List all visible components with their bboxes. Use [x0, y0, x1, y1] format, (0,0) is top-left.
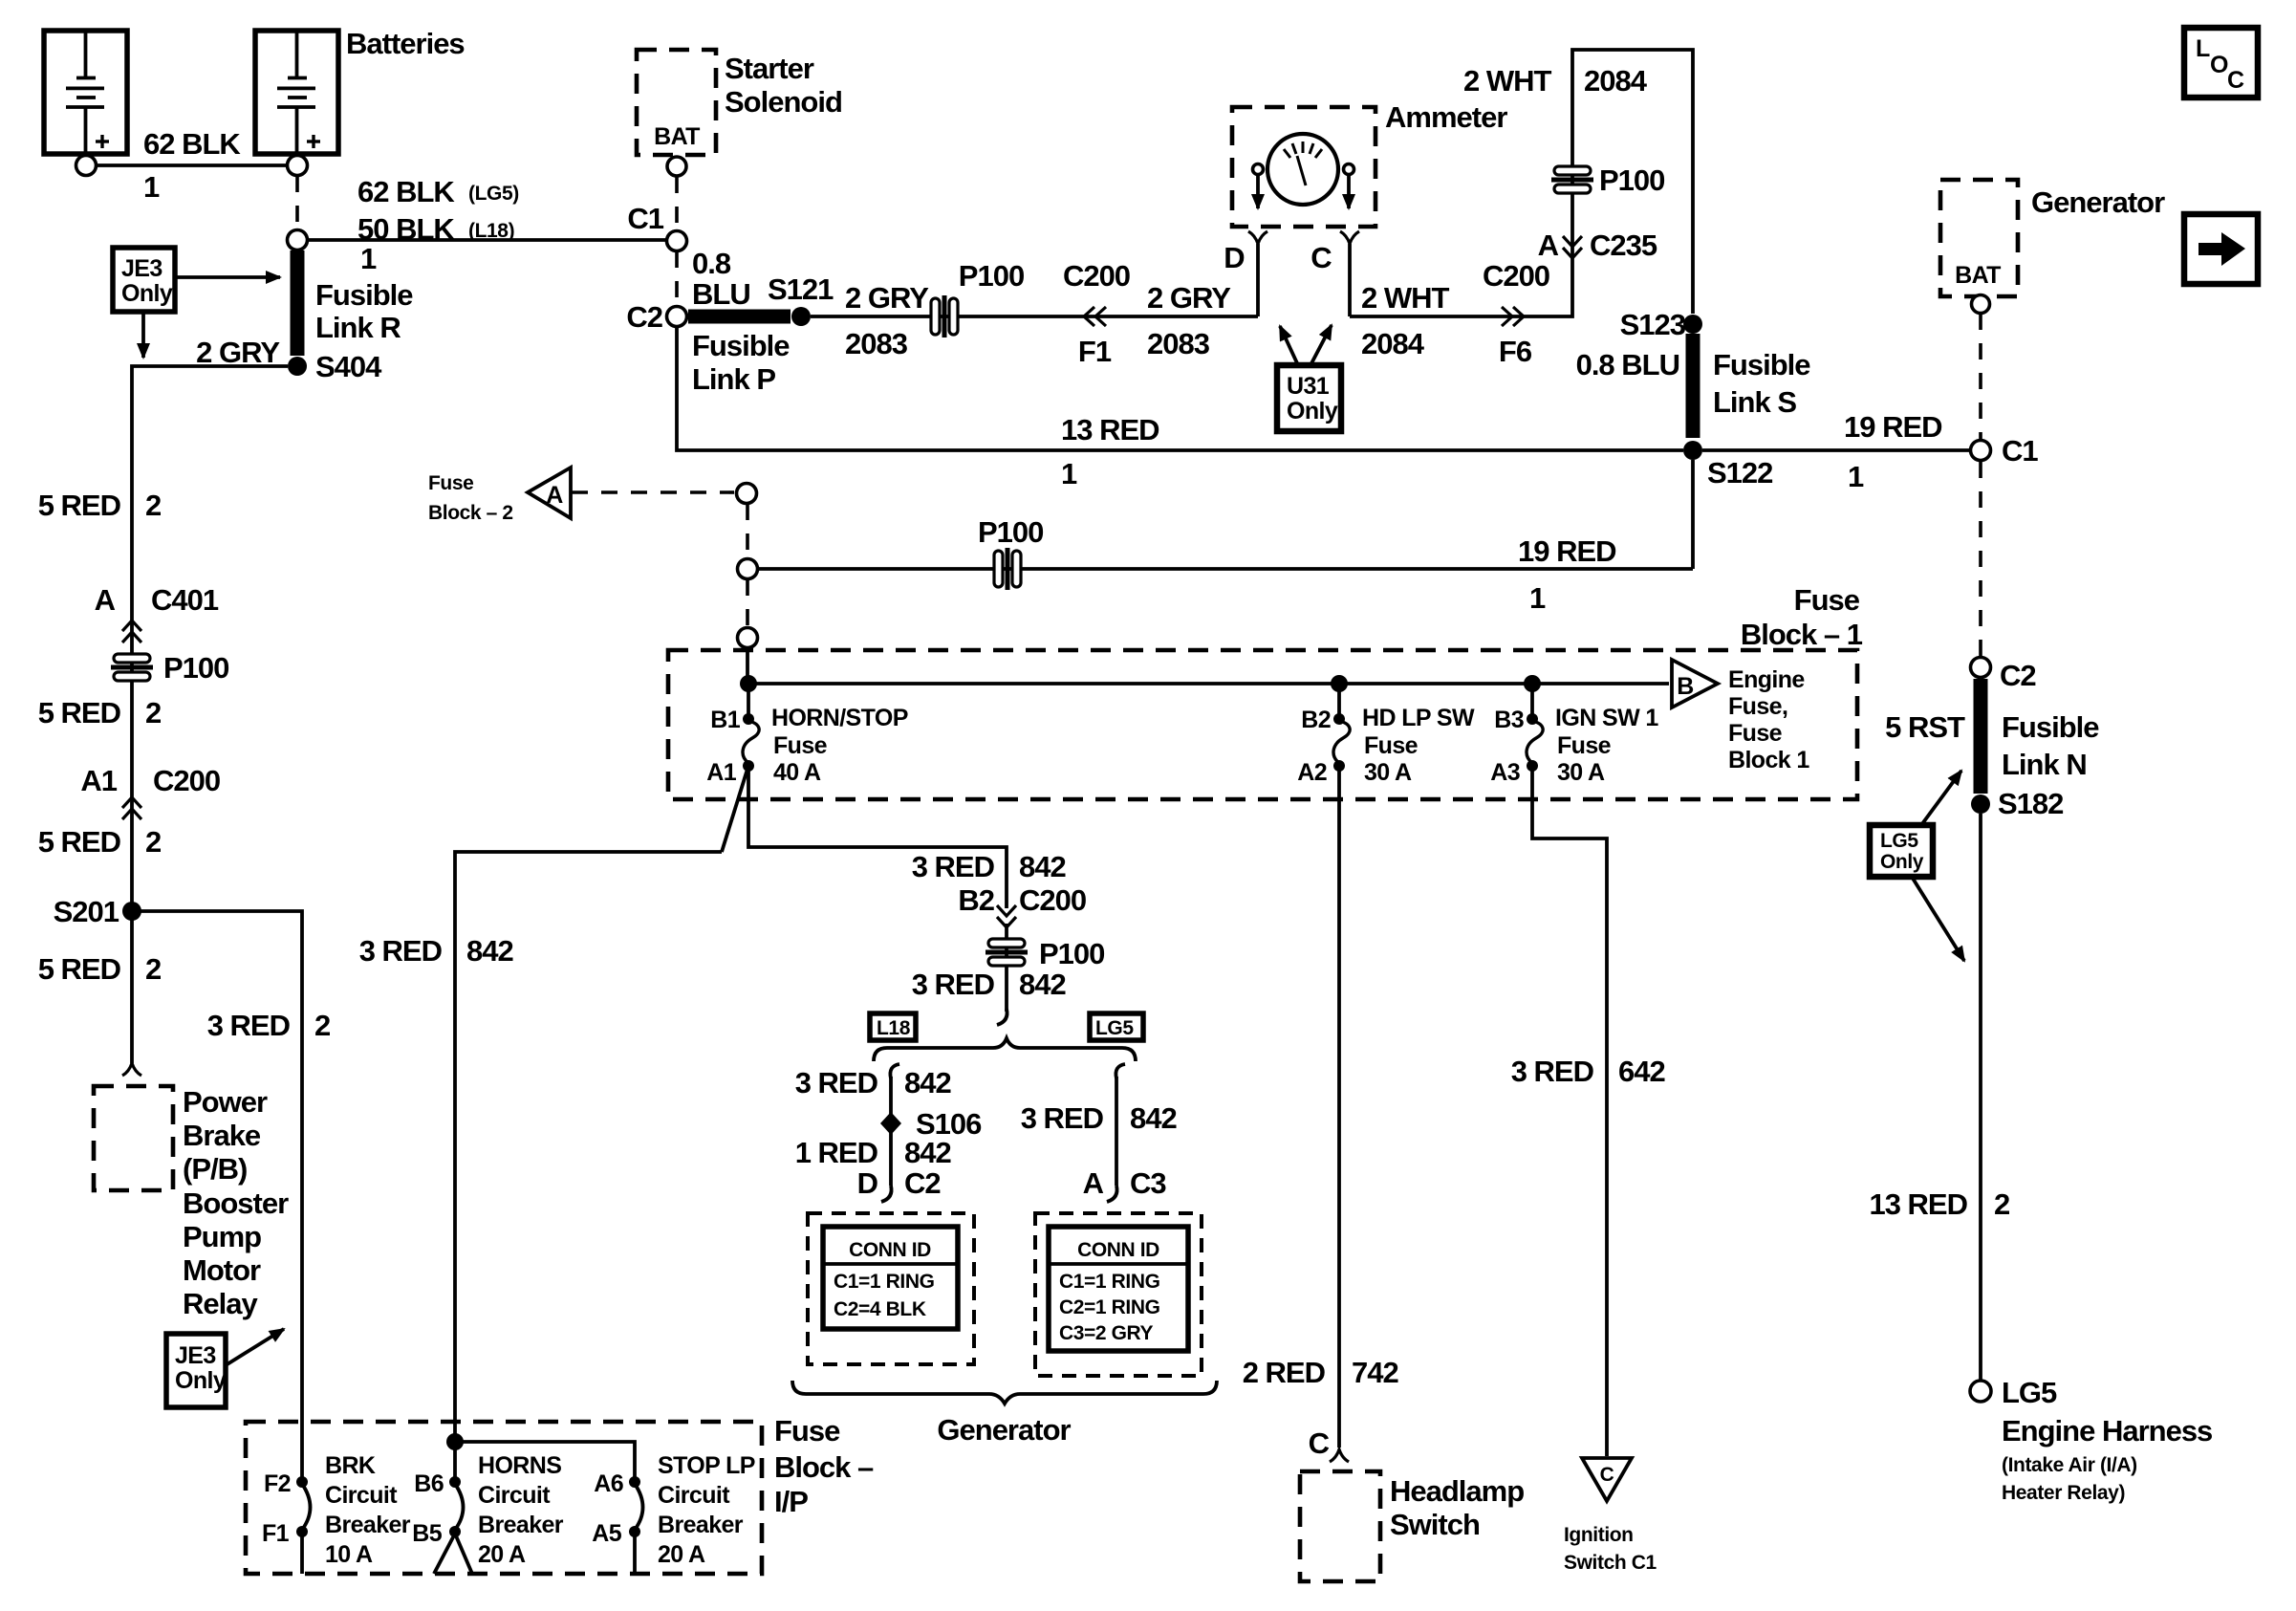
fuse terminal B1: [743, 713, 754, 725]
connector C401 chevrons: [122, 620, 141, 642]
svg-text:C200: C200: [1483, 259, 1549, 293]
svg-text:Only: Only: [1880, 851, 1924, 873]
left branch end hook: [881, 1186, 892, 1202]
svg-text:Fuse: Fuse: [774, 1414, 840, 1448]
dashed wire BAT to C1: [675, 177, 679, 230]
fuse block 2 pointer triangle A: [528, 468, 571, 518]
STOP LP terminal A5: [629, 1526, 640, 1537]
svg-text:Circuit: Circuit: [658, 1482, 730, 1509]
svg-text:5 RED: 5 RED: [38, 952, 121, 986]
svg-text:842: 842: [1130, 1101, 1177, 1135]
svg-text:Starter: Starter: [725, 52, 814, 85]
svg-text:A3: A3: [1490, 759, 1520, 786]
svg-text:C1: C1: [627, 202, 663, 235]
svg-text:C2: C2: [626, 300, 662, 334]
fusible link P: [688, 310, 791, 324]
svg-text:I/P: I/P: [774, 1485, 808, 1518]
svg-text:C200: C200: [1063, 259, 1130, 293]
connector C2: [1971, 658, 1991, 678]
LOC box: [2184, 28, 2258, 98]
wire into fuse block: [746, 648, 749, 684]
svg-text:C2=1 RING: C2=1 RING: [1059, 1296, 1160, 1318]
ammeter terminal C circle: [1344, 164, 1354, 175]
wire A3 down with jog: [1532, 766, 1607, 1456]
HORNS terminal B5: [449, 1526, 461, 1537]
svg-text:Switch: Switch: [1390, 1508, 1480, 1541]
svg-text:BAT: BAT: [654, 123, 700, 150]
connector C1: [667, 231, 687, 251]
svg-text:L: L: [2196, 35, 2210, 62]
svg-text:U31: U31: [1287, 373, 1330, 400]
svg-text:A: A: [95, 583, 116, 617]
grommet P100: [994, 548, 1021, 590]
splice curl: [997, 1009, 1007, 1025]
CONN ID box left dashed: [808, 1213, 974, 1364]
svg-text:C200: C200: [153, 764, 220, 797]
right branch end hook: [1107, 1186, 1117, 1202]
svg-text:3 RED: 3 RED: [795, 1066, 878, 1099]
svg-text:Only: Only: [121, 280, 173, 307]
svg-text:C3: C3: [1130, 1166, 1166, 1200]
bus junction dot: [740, 675, 757, 692]
label Engine Fuse, Fuse Block 1: [1728, 666, 1809, 773]
arrow JE3 2 to wire: [226, 1329, 284, 1365]
svg-text:Fusible: Fusible: [315, 278, 413, 312]
left branch wire: [889, 1077, 893, 1186]
svg-text:Generator: Generator: [937, 1413, 1071, 1447]
svg-text:HORN/STOP: HORN/STOP: [771, 705, 908, 731]
svg-text:Power: Power: [183, 1085, 268, 1119]
svg-text:CONN ID: CONN ID: [1077, 1239, 1159, 1261]
fuse IGN SW 1 squiggle: [1527, 721, 1543, 763]
power brake connector: [122, 1063, 141, 1076]
fuse block I/P dashed box: [246, 1422, 762, 1574]
wire A1 diagonal: [722, 766, 748, 852]
dashed wire down to circle 3: [746, 579, 749, 626]
svg-text:1: 1: [1061, 457, 1077, 490]
L18 box: [870, 1013, 916, 1040]
svg-text:3 RED: 3 RED: [912, 968, 995, 1001]
label STOP LP Circuit Breaker 20 A: [658, 1452, 755, 1568]
BRK breaker terminal F1: [296, 1526, 308, 1537]
svg-text:Circuit: Circuit: [478, 1482, 551, 1509]
label BRK Circuit Breaker 10 A: [325, 1452, 411, 1568]
fusible link S: [1686, 334, 1700, 438]
svg-text:D: D: [1224, 241, 1245, 274]
splice S106: [880, 1112, 901, 1135]
wire 19 RED S122 to C1: [1702, 448, 1970, 452]
connector C1 generator: [1971, 441, 1991, 461]
HORNS squiggle: [455, 1484, 464, 1530]
svg-text:LG5: LG5: [2002, 1376, 2057, 1409]
svg-text:1: 1: [360, 242, 377, 275]
LG5 engine harness terminal: [1970, 1381, 1991, 1402]
svg-text:Brake: Brake: [183, 1119, 261, 1152]
junction dot B2: [1331, 675, 1348, 692]
svg-text:0.8: 0.8: [692, 247, 731, 280]
fuse terminal B3: [1527, 713, 1538, 725]
ammeter pin D wire: [1256, 244, 1260, 316]
svg-text:Headlamp: Headlamp: [1390, 1474, 1524, 1508]
wire 62 BLK between batteries: [96, 163, 287, 167]
node circle 2: [738, 559, 758, 579]
svg-text:1: 1: [1848, 460, 1864, 493]
STOP LP terminal A6: [629, 1476, 640, 1488]
svg-text:B1: B1: [710, 707, 740, 733]
svg-text:HORNS: HORNS: [478, 1452, 561, 1479]
svg-text:L18: L18: [877, 1017, 911, 1039]
right branch curl: [1116, 1064, 1125, 1078]
generator brace: [792, 1381, 1217, 1404]
svg-text:20 A: 20 A: [658, 1541, 705, 1568]
right branch wire: [1115, 1077, 1118, 1186]
grommet P100: [931, 295, 958, 337]
svg-text:Link S: Link S: [1713, 385, 1796, 419]
ignition switch triangle C: [1582, 1458, 1632, 1501]
svg-text:F6: F6: [1499, 335, 1532, 368]
svg-text:(L18): (L18): [468, 220, 514, 242]
svg-text:40 A: 40 A: [773, 759, 821, 786]
connector C200 chevrons: [122, 797, 141, 819]
power brake booster dashed box: [94, 1086, 173, 1190]
svg-text:Block –: Block –: [774, 1450, 874, 1484]
svg-text:Motor: Motor: [183, 1253, 261, 1287]
dashed wire battery B2 down: [295, 176, 299, 229]
fuse terminal A3: [1527, 760, 1538, 772]
svg-text:P100: P100: [978, 515, 1043, 549]
HORNS terminal B6: [449, 1476, 461, 1488]
wire junction to STOP LP: [455, 1442, 635, 1478]
starter BAT terminal: [667, 157, 686, 176]
svg-text:13 RED: 13 RED: [1869, 1187, 1967, 1221]
svg-text:B2: B2: [958, 883, 994, 917]
svg-text:A: A: [546, 482, 563, 509]
fuse terminal B2: [1333, 713, 1345, 725]
svg-text:Only: Only: [175, 1367, 227, 1394]
svg-text:C: C: [1309, 1426, 1330, 1460]
headlamp connector C: [1330, 1449, 1349, 1462]
page arrow box: [2184, 214, 2258, 284]
fuse block 1 dashed box: [668, 650, 1857, 799]
JE3 Only box 2: [166, 1334, 227, 1407]
svg-text:2 RED: 2 RED: [1243, 1356, 1326, 1389]
arrow JE3 to fusible link R: [177, 275, 280, 279]
svg-text:50 BLK: 50 BLK: [357, 212, 455, 246]
splice S123: [1683, 315, 1702, 334]
svg-text:LG5: LG5: [1880, 830, 1918, 852]
svg-text:Engine: Engine: [1728, 666, 1805, 693]
svg-text:842: 842: [466, 934, 513, 968]
label Power Brake (P/B) Booster Pump Motor Relay: [183, 1085, 289, 1320]
svg-text:BRK: BRK: [325, 1452, 376, 1479]
ammeter terminal D circle: [1253, 164, 1264, 175]
svg-text:2 GRY: 2 GRY: [845, 281, 929, 315]
wire S201 branch right and down: [132, 911, 302, 1478]
svg-text:S182: S182: [1998, 787, 2063, 820]
svg-text:A6: A6: [594, 1470, 623, 1497]
wire junction to B6: [453, 1442, 457, 1478]
svg-text:13 RED: 13 RED: [1061, 413, 1159, 446]
wire S404 to left trunk: [132, 366, 288, 1063]
svg-text:2084: 2084: [1361, 327, 1425, 360]
svg-text:Ammeter: Ammeter: [1385, 100, 1507, 134]
BRK breaker terminal F2: [296, 1476, 308, 1488]
svg-text:Breaker: Breaker: [325, 1512, 411, 1538]
wire horizontal to drop 842: [455, 852, 722, 1442]
fuse terminal A2: [1333, 760, 1345, 772]
dashed wire BAT to C1: [1979, 314, 1982, 439]
dashed wire C1 to C2: [675, 251, 679, 305]
wire ammeter C right: [1350, 50, 1693, 316]
dashed wire C1 to C2: [1979, 462, 1982, 656]
battery B2 (right): [255, 31, 338, 154]
wire below A5: [633, 1535, 637, 1576]
arrow LG5 down to wire: [1912, 877, 1964, 961]
svg-text:JE3: JE3: [175, 1342, 216, 1369]
svg-text:B2: B2: [1301, 707, 1331, 733]
svg-text:C235: C235: [1590, 229, 1657, 262]
svg-text:2: 2: [145, 489, 161, 522]
svg-text:842: 842: [1019, 968, 1066, 1001]
svg-text:Block – 1: Block – 1: [1741, 618, 1863, 651]
svg-text:C200: C200: [1019, 883, 1086, 917]
svg-text:30 A: 30 A: [1364, 759, 1412, 786]
svg-text:S123: S123: [1620, 308, 1686, 341]
node circle 3: [738, 628, 758, 648]
left branch curl: [890, 1064, 899, 1078]
svg-text:F1: F1: [1078, 335, 1112, 368]
svg-text:2 WHT: 2 WHT: [1463, 64, 1552, 98]
stub to B1: [747, 684, 750, 715]
svg-text:2083: 2083: [845, 327, 908, 360]
svg-text:A: A: [1083, 1166, 1104, 1200]
STOP LP squiggle: [635, 1484, 643, 1530]
svg-text:Fuse: Fuse: [1364, 732, 1419, 759]
svg-text:3 RED: 3 RED: [1511, 1055, 1594, 1088]
fuse HORN/STOP squiggle: [743, 721, 759, 763]
splice S122: [1683, 441, 1702, 460]
splice S121: [791, 307, 811, 326]
battery B2 terminal: [288, 156, 308, 176]
svg-text:Link R: Link R: [315, 311, 401, 344]
svg-text:Booster: Booster: [183, 1186, 289, 1220]
svg-text:842: 842: [1019, 850, 1066, 883]
svg-text:A5: A5: [592, 1520, 621, 1547]
svg-text:C2: C2: [2000, 659, 2036, 692]
battery B1 (left): [44, 31, 127, 154]
svg-text:HD LP SW: HD LP SW: [1362, 705, 1475, 731]
CONN ID box left inner: [823, 1227, 958, 1329]
svg-text:2084: 2084: [1584, 64, 1648, 98]
svg-text:B: B: [1677, 673, 1693, 700]
grommet P100: [986, 939, 1028, 966]
svg-text:Switch C1: Switch C1: [1564, 1552, 1657, 1574]
svg-text:F1: F1: [262, 1520, 290, 1547]
svg-text:Fusible: Fusible: [2002, 710, 2099, 744]
svg-text:62 BLK: 62 BLK: [357, 175, 455, 208]
pointer triangle B: [1672, 660, 1718, 708]
svg-text:5 RED: 5 RED: [38, 696, 121, 729]
svg-text:D: D: [857, 1166, 878, 1200]
svg-text:Breaker: Breaker: [658, 1512, 744, 1538]
svg-text:A: A: [1538, 229, 1559, 262]
svg-text:BAT: BAT: [1955, 262, 2001, 289]
svg-text:P100: P100: [959, 259, 1024, 293]
grommet P100 on trunk: [111, 654, 153, 681]
svg-text:B3: B3: [1494, 707, 1524, 733]
svg-text:2 WHT: 2 WHT: [1361, 281, 1450, 315]
connector C200 B2 chevrons: [997, 905, 1016, 927]
stub to B3: [1530, 684, 1534, 715]
connector C235 chevrons: [1563, 236, 1582, 258]
svg-text:C: C: [1600, 1464, 1614, 1486]
LG5 box: [1090, 1013, 1143, 1040]
svg-text:IGN SW 1: IGN SW 1: [1555, 705, 1658, 731]
svg-text:Breaker: Breaker: [478, 1512, 564, 1538]
ammeter pin C wire: [1348, 244, 1352, 316]
svg-text:5 RED: 5 RED: [38, 489, 121, 522]
svg-text:C3=2 GRY: C3=2 GRY: [1059, 1322, 1154, 1344]
svg-text:Link P: Link P: [692, 362, 775, 396]
svg-text:2: 2: [145, 825, 161, 859]
svg-text:Block 1: Block 1: [1728, 747, 1809, 773]
svg-text:842: 842: [904, 1136, 951, 1169]
svg-text:(Intake Air (I/A): (Intake Air (I/A): [2002, 1454, 2137, 1476]
wire S121 to ammeter D: [811, 315, 1258, 318]
svg-text:S404: S404: [315, 350, 382, 383]
svg-text:2083: 2083: [1147, 327, 1210, 360]
svg-text:10 A: 10 A: [325, 1541, 373, 1568]
svg-text:Relay: Relay: [183, 1287, 258, 1320]
svg-text:S121: S121: [768, 272, 834, 306]
svg-text:742: 742: [1352, 1356, 1398, 1389]
svg-text:62 BLK: 62 BLK: [143, 127, 241, 161]
arrow JE3 down to wire: [141, 314, 145, 358]
fusible link N: [1974, 679, 1988, 794]
fuse block bus: [748, 682, 1669, 686]
svg-text:Batteries: Batteries: [346, 27, 465, 60]
wire A2 down to headlamp: [1337, 766, 1341, 1448]
svg-text:C1=1 RING: C1=1 RING: [1059, 1271, 1160, 1293]
grommet P100 on riser: [1551, 166, 1593, 193]
ammeter pin D female: [1248, 231, 1267, 244]
arrow U31 left: [1280, 326, 1298, 365]
ammeter pin C female: [1340, 231, 1359, 244]
svg-text:1: 1: [1529, 581, 1546, 615]
svg-text:C2=4 BLK: C2=4 BLK: [834, 1298, 926, 1320]
wire into HORNS junction: [446, 1433, 464, 1450]
svg-text:3 RED: 3 RED: [359, 934, 443, 968]
svg-text:STOP LP: STOP LP: [658, 1452, 755, 1479]
brace split: [874, 1038, 1136, 1061]
svg-text:2 GRY: 2 GRY: [1147, 281, 1231, 315]
ammeter gauge: [1267, 134, 1338, 205]
wire 13 RED from C2 to S122: [677, 327, 1683, 450]
wire below F1: [300, 1535, 304, 1574]
node circle 1: [737, 484, 757, 504]
svg-text:5 RED: 5 RED: [38, 825, 121, 859]
svg-text:LG5: LG5: [1095, 1017, 1134, 1039]
wire 19 RED P100 line: [758, 567, 1693, 571]
svg-text:Engine Harness: Engine Harness: [2002, 1414, 2212, 1448]
svg-text:Block – 2: Block – 2: [428, 502, 513, 524]
svg-text:842: 842: [904, 1066, 951, 1099]
arrow LG5 up to link N: [1921, 771, 1961, 825]
svg-text:2 GRY: 2 GRY: [196, 336, 280, 369]
dashed wire triangle A to node: [572, 490, 734, 494]
svg-text:2: 2: [314, 1009, 330, 1042]
svg-text:19 RED: 19 RED: [1844, 410, 1942, 444]
svg-text:A1: A1: [80, 764, 117, 797]
svg-text:BLU: BLU: [692, 277, 750, 311]
CONN ID box right inner: [1049, 1227, 1188, 1351]
wire S182 down to LG5: [1979, 814, 1982, 1381]
svg-text:JE3: JE3: [121, 255, 162, 282]
svg-text:B5: B5: [412, 1520, 442, 1547]
svg-text:3 RED: 3 RED: [1021, 1101, 1104, 1135]
junction dot B3: [1524, 675, 1541, 692]
svg-text:C1=1 RING: C1=1 RING: [834, 1271, 935, 1293]
label HORNS Circuit Breaker 20 A: [478, 1452, 564, 1568]
generator BAT terminal: [1972, 295, 1990, 314]
headlamp switch dashed box: [1300, 1471, 1380, 1581]
svg-text:642: 642: [1618, 1055, 1665, 1088]
splice S201: [122, 902, 141, 921]
svg-text:Generator: Generator: [2031, 185, 2165, 219]
svg-text:C1: C1: [2002, 434, 2038, 468]
svg-text:S201: S201: [54, 895, 119, 928]
svg-text:Heater Relay): Heater Relay): [2002, 1482, 2125, 1504]
svg-text:(LG5): (LG5): [468, 183, 519, 205]
svg-text:O: O: [2210, 52, 2228, 78]
fuse HD LP SW squiggle: [1333, 721, 1350, 763]
svg-text:Fuse: Fuse: [1728, 720, 1783, 747]
svg-text:A1: A1: [706, 759, 736, 786]
svg-text:Link N: Link N: [2002, 748, 2087, 781]
fusible link R: [291, 250, 305, 356]
arrow U31 right: [1310, 325, 1332, 365]
svg-text:P100: P100: [1599, 163, 1664, 197]
ammeter internal arrow right: [1347, 175, 1351, 208]
svg-text:Fuse: Fuse: [428, 472, 473, 494]
svg-text:(P/B): (P/B): [183, 1152, 247, 1186]
svg-text:P100: P100: [163, 651, 228, 685]
splice S182: [1971, 795, 1990, 814]
stub to B2: [1337, 684, 1341, 715]
connector C200 F6 chevrons: [1502, 307, 1524, 326]
CONN ID box right dashed: [1035, 1213, 1202, 1376]
svg-text:Fusible: Fusible: [1713, 348, 1810, 381]
svg-text:2: 2: [145, 696, 161, 729]
svg-text:5 RST: 5 RST: [1885, 710, 1965, 744]
svg-text:20 A: 20 A: [478, 1541, 526, 1568]
U31 Only box: [1277, 365, 1341, 431]
svg-text:F2: F2: [264, 1470, 291, 1497]
svg-text:P100: P100: [1039, 937, 1104, 970]
svg-text:CONN ID: CONN ID: [849, 1239, 931, 1261]
svg-text:S122: S122: [1707, 456, 1772, 490]
node terminal above fusible link R: [288, 230, 308, 250]
svg-text:C2: C2: [904, 1166, 941, 1200]
svg-text:Fuse,: Fuse,: [1728, 693, 1787, 720]
svg-text:Pump: Pump: [183, 1220, 261, 1253]
fork below B5: [434, 1534, 472, 1574]
LG5 Only box: [1870, 825, 1933, 877]
svg-text:30 A: 30 A: [1557, 759, 1605, 786]
svg-text:B6: B6: [414, 1470, 444, 1497]
vertical from S122 down: [1691, 460, 1695, 569]
svg-text:3 RED: 3 RED: [207, 1009, 291, 1042]
